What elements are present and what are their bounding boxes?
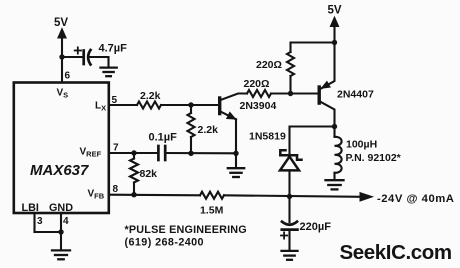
resistor R3 82k xyxy=(130,153,138,195)
svg-text:(619) 268-2400: (619) 268-2400 xyxy=(125,237,204,249)
wire R4 to output xyxy=(224,195,361,197)
pin label Vfb xyxy=(88,189,105,201)
value label 2.2k (R1) xyxy=(140,90,161,102)
junction dot A (5V/C1/pin6) xyxy=(59,54,64,59)
svg-text:5V: 5V xyxy=(328,5,342,17)
ground G2 (Q1 emitter) xyxy=(228,168,244,177)
value label 4.7uF xyxy=(99,43,128,55)
junction dot E (R2 bottom) xyxy=(188,151,193,156)
value label 220 ohm (R5) xyxy=(244,78,270,90)
resistor R1 2.2k xyxy=(137,102,161,109)
transistor Q1 collector xyxy=(221,94,247,100)
ground G1 (C1) xyxy=(101,68,117,77)
wire Q1 emitter to ground xyxy=(235,119,237,153)
svg-text:7: 7 xyxy=(113,143,119,154)
inductor L1 100uH xyxy=(335,127,342,180)
pin labels LBI GND xyxy=(22,202,74,214)
pin label Vref xyxy=(80,147,102,159)
watermark SeekIC.com xyxy=(340,241,452,264)
transistor Q1 emitter with arrow xyxy=(221,112,236,120)
value label 220uF xyxy=(300,221,332,233)
svg-text:1N5819: 1N5819 xyxy=(249,131,286,143)
wire to ground G3 xyxy=(60,232,62,250)
junction dot G (diode/output) xyxy=(287,194,292,199)
svg-text:4: 4 xyxy=(63,216,69,227)
svg-text:2N3904: 2N3904 xyxy=(240,100,277,112)
junction dot F (pin8/R3) xyxy=(131,192,136,197)
svg-text:82k: 82k xyxy=(140,168,158,180)
svg-text:6: 6 xyxy=(65,71,71,82)
svg-text:LBI: LBI xyxy=(22,202,39,214)
value label 82k xyxy=(140,168,158,180)
transistor Q1 2N3904 base bar xyxy=(218,96,221,115)
plus sign of C1 xyxy=(75,47,81,53)
pin number 7 xyxy=(113,143,119,154)
wire R1 to Q1 base xyxy=(161,104,218,106)
5V left arrow xyxy=(58,29,66,58)
wire to ground G2 xyxy=(235,153,237,167)
junction dot K (switch node) xyxy=(332,124,337,129)
plus sign of C3 xyxy=(281,232,287,238)
svg-text:100µH: 100µH xyxy=(346,139,377,151)
svg-text:3: 3 xyxy=(37,216,43,227)
svg-text:VFB: VFB xyxy=(88,189,105,201)
resistor R2 2.2k vertical xyxy=(188,105,195,153)
node 5V left supply label xyxy=(54,17,68,29)
note label PULSE ENGINEERING xyxy=(125,224,247,236)
svg-text:220Ω: 220Ω xyxy=(244,78,270,90)
pin number 3 xyxy=(37,216,43,227)
5V right arrow xyxy=(330,17,338,43)
pin number 8 xyxy=(113,184,119,195)
wire 5V to R6 xyxy=(291,43,335,53)
part label 2N3904 xyxy=(240,100,277,112)
wire Vfb pin8 to R4 xyxy=(109,194,200,197)
ground G4 (inductor) xyxy=(326,180,344,189)
svg-text:-24V @ 40mA: -24V @ 40mA xyxy=(377,193,454,205)
ground G5 (C3) xyxy=(282,251,298,260)
svg-text:2N4407: 2N4407 xyxy=(337,89,374,101)
junction dot C (Lx/R2) xyxy=(188,102,193,107)
value label 2.2k (R2) xyxy=(198,124,219,136)
pin label Vs xyxy=(57,88,69,100)
wire C3 to ground G5 xyxy=(288,230,290,250)
svg-text:5V: 5V xyxy=(54,17,68,29)
wire dot A to C1 xyxy=(62,56,83,58)
node 5V right supply label xyxy=(328,5,342,17)
junction dot H (emitter/Vref net) xyxy=(233,151,238,156)
wire pin6 to Vs xyxy=(61,57,63,83)
svg-text:0.1µF: 0.1µF xyxy=(149,132,178,144)
op-amp U1 MAX637 box xyxy=(14,83,109,214)
wire Lx pin5 to R1 xyxy=(109,104,137,106)
wire C1 to ground xyxy=(91,57,109,67)
wire R5 to Q2 base xyxy=(271,92,318,94)
capacitor C1 4.7uF polarized xyxy=(84,50,91,65)
transistor Q2 collector xyxy=(321,102,335,127)
value label 100uH xyxy=(346,139,377,151)
junction dot B (pin3/pin4) xyxy=(58,229,63,234)
part label MAX637 xyxy=(30,162,89,179)
wire diode to output node xyxy=(288,170,290,196)
capacitor C2 0.1uF xyxy=(158,146,165,160)
wire pin3 down xyxy=(33,213,35,232)
svg-text:SeekIC.com: SeekIC.com xyxy=(340,241,452,264)
resistor R5 220 ohm horizontal xyxy=(247,90,271,97)
wire Vref pin7 to C2 xyxy=(109,152,158,154)
junction dot I (R6 bottom/base) xyxy=(288,91,293,96)
svg-text:LX: LX xyxy=(95,101,106,113)
ground G3 (LBI/GND) xyxy=(52,250,70,259)
value label 0.1uF xyxy=(149,132,178,144)
svg-text:*PULSE ENGINEERING: *PULSE ENGINEERING xyxy=(125,224,247,236)
svg-text:MAX637: MAX637 xyxy=(30,162,89,179)
label -24V @ 40mA xyxy=(377,193,454,205)
svg-text:220µF: 220µF xyxy=(300,221,332,233)
svg-text:VS: VS xyxy=(57,88,69,100)
junction dot D (pin7/R3) xyxy=(131,150,136,155)
capacitor C3 220uF polarized xyxy=(282,222,298,230)
pin label Lx xyxy=(95,101,106,113)
wire pin4 down xyxy=(60,213,62,232)
part label 1N5819 xyxy=(249,131,286,143)
transistor Q2 2N4407 base bar xyxy=(318,85,321,105)
svg-text:1.5M: 1.5M xyxy=(200,205,224,217)
note label phone number xyxy=(125,237,204,249)
output arrow xyxy=(360,193,373,201)
part label 2N4407 xyxy=(337,89,374,101)
svg-text:VREF: VREF xyxy=(80,147,102,159)
svg-text:4.7µF: 4.7µF xyxy=(99,43,128,55)
resistor R6 220 ohm vertical xyxy=(287,52,294,94)
pin number 6 xyxy=(65,71,71,82)
junction dot J (5V/Q2 emitter/R6) xyxy=(332,40,337,45)
wire pin3 to pin4 xyxy=(35,231,62,233)
svg-text:220Ω: 220Ω xyxy=(256,59,282,71)
diode D1 1N5819 schottky xyxy=(280,150,302,170)
svg-text:2.2k: 2.2k xyxy=(198,124,219,136)
wire switch node to diode xyxy=(290,127,335,156)
transistor Q2 emitter with arrow to 5V xyxy=(321,43,335,89)
svg-text:P.N. 92102*: P.N. 92102* xyxy=(346,152,402,164)
svg-text:8: 8 xyxy=(113,184,119,195)
value label 220 ohm (R6) xyxy=(256,59,282,71)
value label 1.5M xyxy=(200,205,224,217)
pin number 4 xyxy=(63,216,69,227)
note label P.N. 92102* xyxy=(346,152,402,164)
wire output node to C3 xyxy=(288,197,290,223)
pin number 5 xyxy=(112,95,118,106)
resistor R4 1.5M xyxy=(200,192,224,199)
wire C2 to Q1 emitter node xyxy=(165,152,236,154)
svg-text:2.2k: 2.2k xyxy=(140,90,161,102)
